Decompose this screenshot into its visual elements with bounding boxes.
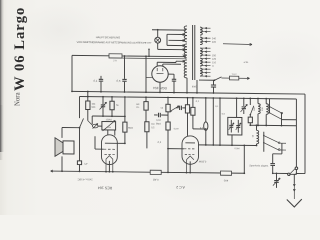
switch arm SA2 bbox=[269, 112, 281, 119]
label L1 bbox=[254, 107, 256, 111]
wire V2 grid lead bbox=[95, 136, 104, 149]
note line1 bbox=[96, 35, 120, 39]
tube V1 anode bbox=[185, 142, 195, 144]
label tap 0 bbox=[212, 65, 214, 68]
wire arm link bbox=[273, 143, 282, 154]
wire R1 slant bbox=[88, 121, 93, 126]
scan edge shadow bbox=[0, 0, 4, 152]
svg-text:0: 0 bbox=[212, 65, 214, 68]
wire rail A right side bbox=[304, 94, 306, 174]
transformer tap stubs bbox=[201, 27, 211, 77]
wire U1 heater leads bbox=[157, 62, 163, 66]
coil L1 bbox=[257, 98, 260, 127]
potentiometer P2 box bbox=[102, 120, 116, 131]
label cathode text bbox=[77, 178, 92, 182]
tube V1 envelope bbox=[182, 136, 199, 164]
wire arrow ticks bbox=[293, 184, 295, 191]
label tube RGN 354 bbox=[153, 86, 167, 90]
svg-text:0,35W: 0,35W bbox=[198, 160, 206, 164]
label R12b bbox=[222, 114, 226, 116]
wire primary bottom drop bbox=[186, 78, 188, 94]
label HF Dr bbox=[136, 103, 140, 109]
label P2 150k bbox=[106, 119, 113, 121]
label C2 0,5 bbox=[117, 79, 121, 83]
label Sperrkreis bbox=[249, 164, 269, 167]
wire U1 side cap bbox=[168, 74, 176, 93]
wire left drop bbox=[71, 55, 73, 91]
wire bottom rail bbox=[51, 170, 245, 174]
switch S2 on left edge bbox=[79, 118, 84, 128]
tube V2 pins bbox=[105, 159, 114, 172]
label tap 125 bbox=[212, 58, 217, 61]
label 6000 bbox=[192, 86, 198, 88]
label fuse 2A bbox=[113, 59, 117, 62]
wire feeder y60 bbox=[176, 60, 185, 62]
svg-text:0,1: 0,1 bbox=[196, 101, 200, 103]
resistor R10 bottom bbox=[150, 170, 161, 174]
label a.W. bbox=[244, 61, 249, 64]
svg-text:VOR INBETRIEBNAHME AUF NETZSPA: VOR INBETRIEBNAHME AUF NETZSPANNUNG ACHT… bbox=[77, 41, 152, 45]
speaker LS cone bbox=[55, 138, 63, 157]
svg-text:T 0,2: T 0,2 bbox=[232, 74, 238, 76]
wire V1 grid lead bbox=[167, 148, 184, 150]
wire row123 bbox=[250, 124, 296, 126]
label script 01 bbox=[158, 140, 162, 144]
svg-text:0,02: 0,02 bbox=[156, 120, 161, 122]
label R9 bbox=[200, 127, 204, 129]
wire earth drop bbox=[293, 174, 295, 199]
speaker LS driver bbox=[63, 141, 74, 154]
svg-text:2 A: 2 A bbox=[113, 59, 117, 62]
wire plain drop 215 bbox=[212, 97, 214, 145]
wire row117 bbox=[282, 119, 297, 121]
wire lamp bottom bbox=[157, 43, 159, 49]
label R12 bbox=[215, 106, 219, 108]
wire feeder y44 bbox=[167, 44, 185, 46]
label R5 bbox=[151, 124, 155, 130]
wire mains arrow bbox=[223, 43, 252, 45]
trimmer CTa bbox=[229, 120, 234, 133]
resistor R9 oval bbox=[204, 97, 208, 145]
svg-text:A C 2: A C 2 bbox=[176, 185, 185, 189]
capacitor C3 block bbox=[77, 161, 88, 166]
transformer T1 core bbox=[193, 25, 195, 80]
wire left box edge top bbox=[79, 96, 81, 118]
terminal circle right bbox=[295, 167, 298, 170]
capacitor C1 above rail bbox=[99, 76, 103, 93]
capacitor C6 bbox=[176, 106, 186, 111]
resistor R7 bbox=[166, 112, 170, 174]
resistor R6 bbox=[166, 97, 170, 112]
tube V2 grid bbox=[104, 149, 115, 155]
wire fuse to arrow bbox=[239, 77, 250, 79]
trimmer CTb bbox=[236, 120, 241, 133]
potentiometer P1 trimmer bbox=[92, 123, 98, 128]
svg-text:Sperrkreis abgest.: Sperrkreis abgest. bbox=[249, 164, 269, 167]
tube V2 anode bbox=[105, 142, 115, 144]
svg-text:220: 220 bbox=[212, 41, 217, 44]
wire grid bus bbox=[92, 115, 126, 117]
resistor R8b bbox=[191, 97, 195, 129]
title model W06 Largo vertical bbox=[12, 7, 28, 91]
label tap 220 bbox=[212, 41, 217, 44]
svg-text:5k: 5k bbox=[116, 105, 119, 107]
coil L3 bbox=[256, 124, 259, 145]
capacitor C10 sperrkreis bbox=[270, 154, 275, 174]
earth symbol bbox=[287, 199, 302, 207]
wire speaker bottom bbox=[61, 156, 63, 172]
svg-text:0,4Ω: 0,4Ω bbox=[153, 178, 159, 182]
svg-text:0,1: 0,1 bbox=[215, 106, 219, 108]
capacitor C2 above rail bbox=[122, 55, 126, 93]
wire arm drop bbox=[281, 113, 283, 127]
wire arm pivot lower bbox=[263, 132, 265, 152]
svg-text:Dr.: Dr. bbox=[136, 106, 139, 109]
wire contacts right bbox=[278, 142, 286, 150]
resistor R3 choke bbox=[144, 96, 148, 121]
svg-text:1M: 1M bbox=[151, 124, 154, 126]
wire gang to bottom bbox=[243, 145, 245, 174]
switch arm SA6 bbox=[290, 168, 296, 174]
wire top rail bbox=[72, 55, 186, 56]
label tap 150 bbox=[212, 54, 217, 57]
svg-text:2xUcc 4 5BC: 2xUcc 4 5BC bbox=[77, 178, 92, 182]
note line2 bbox=[77, 41, 152, 45]
tube V1 grid bbox=[184, 149, 194, 155]
resistor R8 bbox=[185, 97, 189, 136]
svg-text:5MΩ: 5MΩ bbox=[156, 123, 161, 125]
title Nora brand vertical bbox=[15, 92, 22, 106]
wire P2 to tube top bbox=[107, 130, 109, 135]
label L2 bbox=[262, 107, 264, 111]
wire P2 right drop bbox=[114, 130, 116, 136]
wire R12 drop bbox=[219, 97, 221, 145]
wire feeder y48 bbox=[158, 48, 185, 50]
wire left edge mid bbox=[79, 128, 81, 161]
fuse Si1 on top rail bbox=[109, 54, 122, 58]
wire left edge low bbox=[79, 165, 81, 173]
label tap 240 bbox=[212, 37, 217, 40]
wire lamp top stub bbox=[157, 29, 159, 37]
tube V1 filament bbox=[187, 156, 194, 160]
wire heater to transformer A bbox=[157, 61, 176, 63]
wire terminal row bbox=[272, 172, 288, 174]
wire right low link bbox=[296, 170, 298, 175]
wire bus rail A bbox=[71, 90, 305, 94]
label L3 bbox=[252, 134, 254, 137]
wire rail B right drop bbox=[295, 99, 297, 167]
svg-text:150kΩ: 150kΩ bbox=[106, 119, 113, 121]
svg-text:HAUPTSICHERUNG: HAUPTSICHERUNG bbox=[96, 35, 120, 39]
label P2 150k inside bbox=[107, 127, 111, 129]
capacitor C5 coupling bbox=[154, 113, 168, 118]
wire R8b link bbox=[193, 128, 207, 130]
resistor R11 bottom bbox=[221, 171, 232, 175]
resistor R1 bbox=[86, 97, 90, 121]
resistor R13 bbox=[248, 115, 252, 127]
tube U1 RGN354 envelope bbox=[152, 66, 168, 83]
label gang 500 bbox=[235, 148, 240, 150]
svg-text:150k: 150k bbox=[107, 127, 111, 129]
resistor R5 bbox=[145, 122, 149, 149]
wire U1 anode link bbox=[146, 76, 153, 78]
wire grid bus drop bbox=[91, 116, 93, 124]
wire feeder join bbox=[166, 34, 168, 45]
svg-text:RGN 354: RGN 354 bbox=[153, 86, 167, 90]
svg-text:0,1: 0,1 bbox=[94, 79, 98, 83]
wire mains drop 146 bbox=[145, 55, 147, 93]
label tap 110 bbox=[212, 61, 217, 64]
label R7 05M bbox=[174, 128, 179, 130]
tube U1 electrodes bbox=[157, 68, 164, 74]
tube V2 RES164 envelope bbox=[102, 135, 118, 165]
wire rail A bottom right bbox=[296, 172, 305, 174]
svg-text:5MΩ: 5MΩ bbox=[128, 128, 133, 130]
svg-text:0,5M: 0,5M bbox=[235, 148, 240, 150]
wire bus rail B bbox=[80, 96, 297, 98]
wire feeder y39 bbox=[169, 39, 185, 41]
wire feeder y54 head bbox=[183, 55, 185, 57]
lamp LA1 bbox=[155, 37, 161, 43]
wire top rail pair bbox=[120, 57, 186, 60]
label R11 bbox=[223, 179, 228, 183]
transformer T1 secondary winding bbox=[200, 27, 202, 76]
svg-text:10k: 10k bbox=[92, 104, 97, 106]
svg-text:0,5M: 0,5M bbox=[174, 128, 179, 130]
svg-text:0,5: 0,5 bbox=[151, 127, 155, 129]
svg-text:W 06 Largo: W 06 Largo bbox=[12, 7, 28, 91]
svg-text:300: 300 bbox=[254, 107, 256, 111]
svg-text:Nora: Nora bbox=[15, 92, 22, 106]
wire transformer bottom drop bbox=[196, 80, 198, 94]
label C1 0,1 bbox=[94, 79, 98, 83]
varcap CV1 bbox=[241, 97, 248, 114]
switch S3 arm bbox=[170, 106, 179, 112]
svg-text:60: 60 bbox=[252, 134, 254, 137]
wire rail link bbox=[87, 91, 89, 98]
label R6 bbox=[161, 108, 164, 110]
wire gang drop bbox=[236, 97, 238, 117]
label R1 10k 500 bbox=[91, 104, 96, 109]
svg-text:RES 164: RES 164 bbox=[98, 186, 112, 190]
svg-text:0,5: 0,5 bbox=[222, 114, 226, 116]
transformer T1 primary winding bbox=[184, 26, 187, 78]
wire lamp rail link bbox=[148, 48, 150, 57]
wire feeder y33 bbox=[167, 33, 185, 35]
coil L2 bbox=[265, 98, 268, 126]
tube V2 filament bbox=[106, 156, 113, 160]
svg-text:50: 50 bbox=[161, 108, 164, 110]
label R2 bbox=[116, 105, 119, 107]
switch arm SA3 bbox=[263, 135, 278, 143]
resistor R2 bbox=[110, 96, 114, 116]
svg-text:a.W.: a.W. bbox=[244, 61, 249, 64]
tube V1 pins bbox=[186, 160, 192, 174]
wire U1 cathode drop bbox=[159, 82, 161, 93]
switch S mains bbox=[215, 77, 222, 80]
wire speaker top bbox=[62, 127, 80, 138]
label tube V1 type bbox=[198, 160, 206, 164]
svg-text:400: 400 bbox=[223, 179, 228, 183]
label tube RES 164 bbox=[98, 186, 112, 190]
svg-text:500: 500 bbox=[91, 107, 96, 109]
capacitor C9 transformer bottom bbox=[211, 80, 216, 94]
wire gang bottom drop bbox=[231, 135, 233, 145]
wire top feeder bbox=[152, 29, 186, 31]
resistor R4 bbox=[123, 96, 127, 143]
fuse Si2 bottom bbox=[230, 74, 239, 80]
trimmer C4 bbox=[100, 96, 107, 116]
label R8 01 bbox=[196, 101, 200, 103]
label C5 bbox=[156, 120, 161, 126]
label R10 bbox=[153, 178, 159, 182]
gang capacitor box bbox=[228, 117, 242, 135]
switch arm SA1 bbox=[269, 106, 283, 114]
wire terminal links bbox=[290, 173, 296, 175]
svg-text:0,1: 0,1 bbox=[158, 140, 162, 144]
switch arm SA4 bbox=[263, 142, 278, 150]
wire switch to fuse bbox=[222, 77, 230, 79]
switch S4 bbox=[249, 98, 253, 116]
svg-text:6000: 6000 bbox=[192, 86, 198, 88]
terminal circle A bbox=[288, 173, 290, 175]
wire V2 anode lead bbox=[115, 142, 126, 144]
wire arm pivot upper bbox=[269, 99, 271, 113]
wire P1 right bbox=[98, 125, 102, 127]
svg-text:1μF: 1μF bbox=[84, 163, 88, 165]
label R4 5M bbox=[128, 128, 133, 130]
wire heater to transformer B bbox=[163, 63, 181, 65]
wire V1 anode row bbox=[199, 144, 258, 146]
wire mains bottom bbox=[199, 79, 215, 81]
svg-text:100: 100 bbox=[262, 107, 264, 111]
label tube AC2 bbox=[176, 185, 185, 189]
trimmer CT1 bbox=[273, 173, 280, 188]
svg-text:0,5: 0,5 bbox=[117, 79, 121, 83]
